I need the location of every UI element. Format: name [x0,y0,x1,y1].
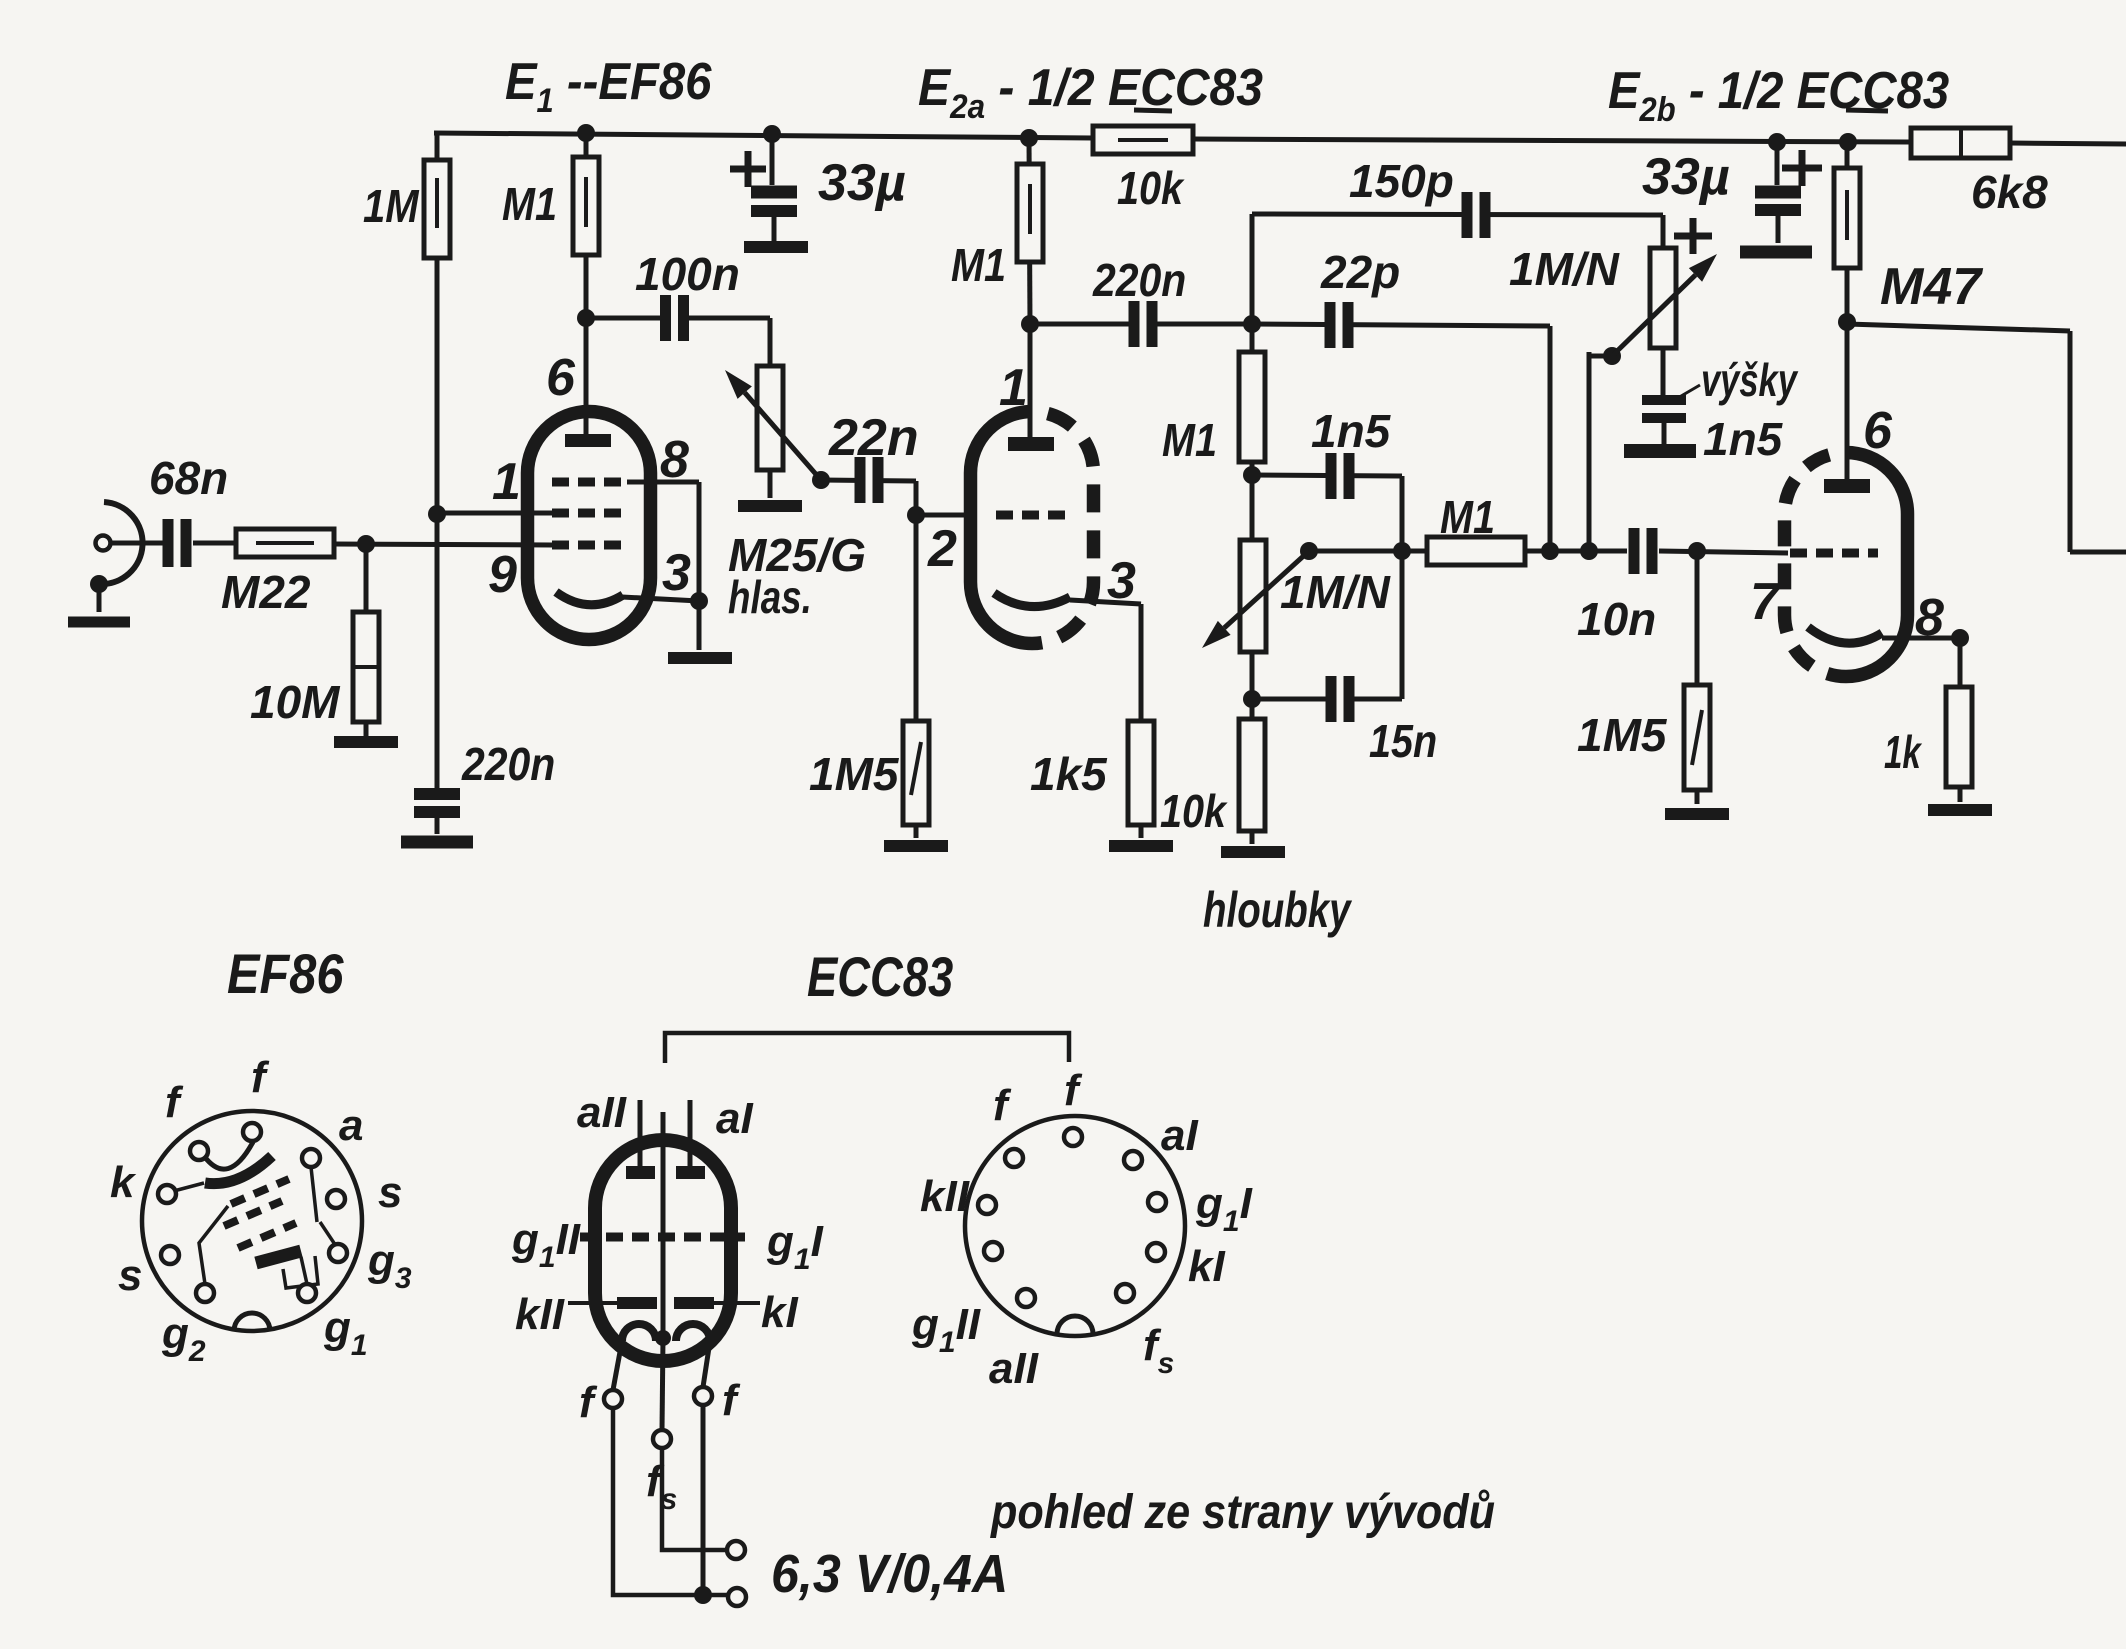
svg-text:M1: M1 [951,240,1006,291]
svg-text:1k5: 1k5 [1030,748,1108,800]
svg-text:1M: 1M [363,181,420,232]
svg-text:výšky: výšky [1701,354,1799,406]
svg-text:kI: kI [761,1288,798,1337]
svg-text:pohled ze strany vývodů: pohled ze strany vývodů [990,1485,1495,1539]
svg-text:6: 6 [1863,402,1893,460]
svg-text:ECC83: ECC83 [807,945,953,1008]
svg-text:8: 8 [660,431,689,489]
svg-text:aII: aII [989,1344,1039,1393]
svg-text:2: 2 [927,520,957,578]
svg-text:1M/N: 1M/N [1509,243,1620,295]
svg-text:8: 8 [1915,589,1944,647]
svg-text:100n: 100n [635,248,740,300]
svg-text:3: 3 [662,544,691,602]
svg-text:M1: M1 [502,179,557,230]
svg-text:aI: aI [716,1094,753,1143]
svg-text:9: 9 [488,546,517,604]
svg-text:aII: aII [577,1088,627,1137]
svg-text:hloubky: hloubky [1203,883,1352,938]
svg-text:10M: 10M [250,676,341,728]
svg-text:M1: M1 [1162,415,1217,466]
svg-text:s: s [378,1168,402,1217]
svg-text:1k: 1k [1884,728,1922,778]
svg-text:1: 1 [999,359,1028,417]
svg-text:kII: kII [920,1172,970,1221]
svg-text:M47: M47 [1880,258,1983,316]
svg-text:EF86: EF86 [227,943,344,1006]
svg-text:15n: 15n [1369,716,1437,767]
svg-text:22n: 22n [828,409,919,467]
svg-text:a: a [339,1101,363,1150]
svg-text:kI: kI [1188,1242,1225,1291]
svg-text:1n5: 1n5 [1311,405,1392,457]
svg-text:10k: 10k [1160,786,1228,837]
svg-text:M1: M1 [1440,492,1495,543]
svg-text:1n5: 1n5 [1703,413,1784,465]
svg-text:220n: 220n [1092,256,1186,307]
svg-text:1M5: 1M5 [1577,709,1668,761]
svg-text:6,3 V/0,4A: 6,3 V/0,4A [771,1544,1008,1604]
svg-text:1M/N: 1M/N [1280,566,1391,618]
svg-text:k: k [110,1158,137,1207]
svg-text:220n: 220n [461,740,555,791]
svg-text:s: s [118,1251,142,1300]
svg-text:22p: 22p [1320,246,1400,298]
svg-text:kII: kII [515,1290,565,1339]
svg-text:E1 --EF86: E1 --EF86 [505,52,712,119]
svg-text:33µ: 33µ [818,154,906,212]
svg-text:6k8: 6k8 [1971,166,2048,218]
svg-text:6: 6 [546,349,576,407]
svg-text:1: 1 [492,453,521,511]
svg-text:3: 3 [1107,552,1136,610]
svg-text:10n: 10n [1577,593,1656,645]
svg-text:hlas.: hlas. [728,571,812,623]
svg-text:10k: 10k [1117,163,1185,214]
svg-text:7: 7 [1750,573,1781,631]
svg-text:aI: aI [1161,1111,1198,1160]
svg-text:68n: 68n [149,452,228,504]
svg-text:M22: M22 [221,566,311,618]
svg-text:33µ: 33µ [1642,148,1730,206]
svg-text:150p: 150p [1349,155,1454,207]
svg-text:1M5: 1M5 [809,748,900,800]
